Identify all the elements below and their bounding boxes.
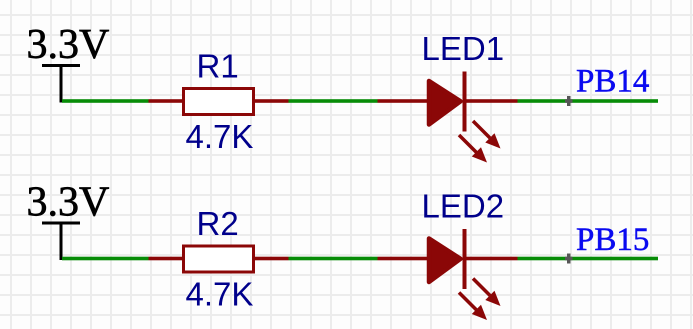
svg-text:R1: R1 [197, 48, 239, 85]
svg-text:PB14: PB14 [576, 64, 649, 100]
svg-text:LED2: LED2 [422, 188, 505, 225]
resistor R2 [149, 246, 289, 272]
power port 3.3V (row 2) [42, 222, 80, 261]
power port 3.3V (row 1) [42, 64, 80, 103]
svg-text:4.7K: 4.7K [186, 276, 254, 313]
resistor R1 [149, 89, 289, 115]
LED LED1 [378, 72, 518, 163]
junction marker on PB15 wire [565, 254, 573, 264]
LED LED2 [378, 229, 518, 320]
wire row 2 right (green) [518, 257, 659, 261]
svg-text:3.3V: 3.3V [27, 180, 110, 226]
junction marker on PB14 wire [565, 96, 573, 106]
wire row 1 left (green) [62, 99, 149, 103]
wire row 2 middle (green) [289, 257, 378, 261]
svg-text:4.7K: 4.7K [186, 118, 254, 155]
svg-text:LED1: LED1 [422, 30, 505, 67]
wire row 1 middle (green) [289, 99, 378, 103]
svg-text:R2: R2 [197, 205, 239, 242]
svg-text:PB15: PB15 [576, 222, 649, 258]
wire row 2 left (green) [62, 257, 149, 261]
svg-text:3.3V: 3.3V [27, 22, 110, 68]
wire row 1 right (green) [518, 99, 659, 103]
